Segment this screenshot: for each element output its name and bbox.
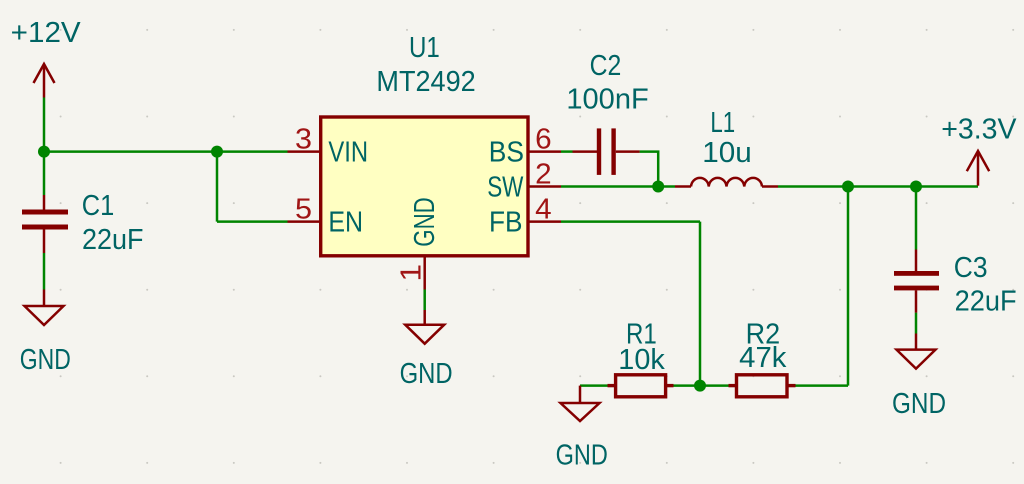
svg-text:+12V: +12V — [11, 17, 82, 49]
power flag +3.3V — [967, 151, 989, 186]
pin 5 EN wire stub — [288, 220, 320, 223]
svg-text:3: 3 — [295, 124, 312, 156]
svg-text:100nF: 100nF — [566, 84, 648, 116]
svg-text:C2: C2 — [590, 50, 622, 82]
wire: SW line to L1 — [561, 185, 675, 188]
svg-text:C3: C3 — [954, 252, 988, 284]
wire: FB pin across — [561, 220, 700, 223]
svg-text:6: 6 — [535, 124, 552, 156]
wire: EN branch horizontal — [217, 220, 288, 223]
wire: feedback riser R2 to rail — [847, 187, 850, 386]
IC U1 MT2492 body — [321, 117, 528, 256]
junction node FB divider — [694, 380, 706, 392]
junction node A — [38, 146, 50, 158]
svg-text:1: 1 — [395, 264, 427, 282]
pin 4 FB wire stub — [530, 220, 562, 223]
svg-text:GND: GND — [20, 344, 71, 376]
wire: EN branch vertical — [216, 152, 219, 222]
wire: FB down to divider — [699, 222, 702, 386]
svg-text:MT2492: MT2492 — [376, 66, 475, 98]
svg-text:GND: GND — [892, 388, 946, 420]
capacitor C2 — [573, 128, 640, 175]
wire: R2 right to riser — [796, 384, 849, 387]
svg-text:22uF: 22uF — [82, 224, 144, 256]
junction node SW/C2 — [652, 181, 664, 193]
ground below C3 — [897, 334, 936, 369]
wire: pin1 stub — [423, 290, 426, 311]
ground below U1 pin1 — [405, 310, 444, 344]
svg-text:VIN: VIN — [328, 137, 368, 169]
pin 1 GND wire stub — [423, 257, 426, 290]
junction node VOUT/C3 — [910, 181, 922, 193]
resistor R1 — [608, 375, 674, 397]
svg-text:47k: 47k — [739, 342, 787, 374]
capacitor C1 — [22, 195, 68, 253]
wire: C3 bottom to ground stem — [915, 313, 918, 334]
pin 3 VIN wire stub — [288, 150, 320, 153]
svg-text:GND: GND — [400, 358, 453, 390]
pin 6 BS wire stub — [530, 150, 562, 153]
svg-text:+3.3V: +3.3V — [941, 114, 1017, 146]
wire: BS pin to C2 — [561, 150, 573, 153]
capacitor C3 — [894, 250, 939, 313]
wire: node A down to C1 — [43, 152, 46, 195]
wire: +12V riser to node A — [43, 98, 46, 152]
wire: C1 bottom to ground stem — [43, 253, 46, 290]
wire: GND stub to R1 — [580, 384, 608, 387]
svg-text:10u: 10u — [702, 137, 752, 169]
svg-text:22uF: 22uF — [955, 286, 1017, 318]
resistor R2 — [729, 375, 796, 397]
junction node B (EN tap) — [211, 146, 223, 158]
inductor L1 — [675, 178, 778, 187]
junction node VOUT/R2 riser — [842, 181, 854, 193]
wire: C2 right to corner — [640, 152, 659, 187]
svg-text:FB: FB — [489, 207, 523, 239]
svg-text:10k: 10k — [618, 344, 665, 376]
svg-text:4: 4 — [535, 194, 552, 226]
wire: main top rail from node A to VIN — [44, 150, 288, 153]
wire: R1 to R2 — [674, 384, 729, 387]
svg-text:GND: GND — [409, 197, 441, 247]
svg-text:L1: L1 — [710, 107, 735, 139]
svg-text:2: 2 — [535, 159, 552, 191]
ground below C1 — [25, 290, 64, 326]
pin 2 SW wire stub — [530, 185, 562, 188]
svg-text:U1: U1 — [409, 32, 440, 64]
wire: down to C3 — [915, 187, 918, 250]
ground left of R1 — [561, 386, 600, 421]
svg-text:EN: EN — [328, 207, 363, 239]
svg-text:BS: BS — [489, 137, 524, 169]
wire: L1 to +3.3V rail — [778, 185, 978, 188]
svg-text:SW: SW — [487, 172, 524, 204]
power flag +12V — [34, 64, 55, 98]
svg-text:C1: C1 — [82, 190, 115, 222]
svg-text:5: 5 — [295, 194, 312, 226]
svg-text:GND: GND — [556, 439, 608, 471]
